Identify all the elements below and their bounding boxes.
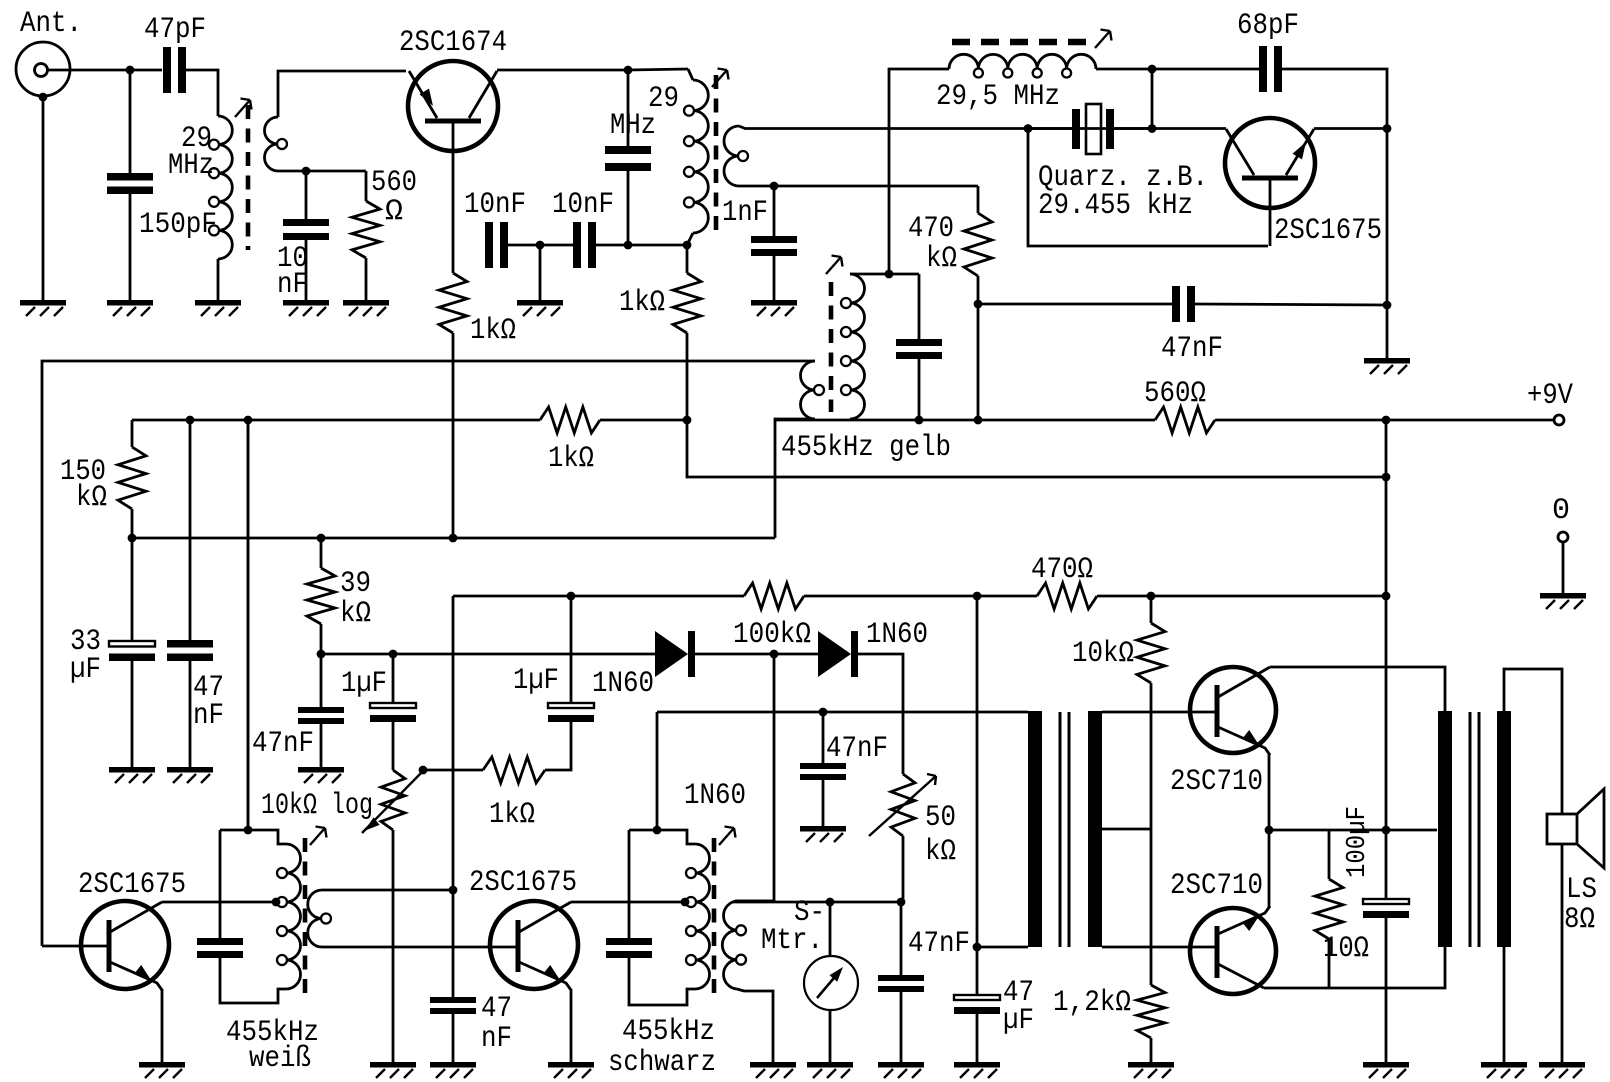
capacitor 47nF (meter) <box>878 975 924 992</box>
label 1kΩ (node B) <box>619 286 665 320</box>
junction 712/47nF <box>819 708 828 717</box>
label nF (x453) <box>481 1022 512 1056</box>
ground 47nF AF <box>800 826 846 842</box>
capacitor 47µF (electrolytic) <box>954 995 1000 1014</box>
wire 150k bottom <box>131 509 134 538</box>
label 1kΩ (rail) <box>548 442 594 476</box>
wire Q3 emitter <box>161 989 164 1062</box>
junction collector/tank <box>624 66 633 75</box>
label 150pF <box>139 208 217 242</box>
transformer T1 tuning arrow <box>235 99 252 118</box>
wire 47pF to T1 <box>186 70 218 116</box>
capacitor 33µF (electrolytic) <box>109 641 155 661</box>
label schwarz <box>608 1046 716 1080</box>
label Q6 2SC710 <box>1170 869 1263 903</box>
wire 1k AF to 1uF2 <box>545 721 571 770</box>
capacitor 47nF (AF) <box>800 763 846 780</box>
wire Q5 collector <box>1270 667 1445 712</box>
svg-text:1kΩ: 1kΩ <box>619 286 665 320</box>
ground 1nF <box>751 300 797 316</box>
ground 47nF rail <box>167 767 213 783</box>
junction 470k/47nF <box>974 300 983 309</box>
svg-text:1kΩ: 1kΩ <box>548 442 594 476</box>
label D1 1N60 <box>592 667 654 701</box>
wire 1.2k gnd <box>1150 1038 1153 1062</box>
wire driver prim bottom <box>978 946 1028 949</box>
wire Q2 base lead <box>1269 178 1272 246</box>
resistor 1kΩ (node B) <box>673 273 701 333</box>
label nF (railnF) <box>193 699 224 733</box>
wire antenna to node A <box>48 69 162 72</box>
speaker LS <box>1547 789 1604 868</box>
junction 10nF mid <box>536 241 545 250</box>
wire 453 vertical <box>452 596 455 890</box>
ground osc right <box>1364 358 1410 374</box>
resistor 10kΩ <box>1137 623 1165 683</box>
wire Q4 emitter <box>570 989 573 1062</box>
wire T7 sec bottom <box>1503 947 1506 1062</box>
crystal Q 29.455kHz <box>1072 104 1114 154</box>
diode D2 1N60 <box>818 631 858 677</box>
wire 1k to AGC line <box>452 333 455 538</box>
ground T7 sec <box>1481 1062 1527 1078</box>
svg-text:1nF: 1nF <box>722 196 768 230</box>
label 560Ω (rail) <box>1144 377 1206 411</box>
osc coil tuning arrow <box>1095 30 1112 49</box>
svg-text:47: 47 <box>481 992 512 1026</box>
wire 596 line c <box>804 595 1037 598</box>
wire weiss cap bottom <box>220 958 286 1003</box>
junction meter node <box>897 898 906 907</box>
junction 538/1k <box>449 534 458 543</box>
wire emitters line <box>1269 829 1437 832</box>
wire 39k top <box>320 538 323 568</box>
wire Q6 collector <box>1264 947 1445 988</box>
wire Q1 collector <box>497 69 688 70</box>
ground pot <box>370 1062 416 1078</box>
svg-text:100kΩ: 100kΩ <box>733 618 811 652</box>
wire schwarz sec bottom <box>737 989 773 1062</box>
wire osc tank cap bottom <box>918 359 921 420</box>
capacitor 150pF <box>107 173 153 194</box>
label 10kΩ log <box>261 789 373 823</box>
ground 33uF <box>109 767 155 783</box>
svg-text:1µF: 1µF <box>513 664 559 698</box>
svg-text:LS: LS <box>1566 873 1597 907</box>
wire 1uF#1 top <box>392 654 395 702</box>
label Q4 2SC1675 <box>469 866 577 900</box>
junction rail gelb cap <box>915 416 924 425</box>
wire osc tank cap drop <box>918 274 921 339</box>
label 50 <box>925 801 956 835</box>
svg-text:1kΩ: 1kΩ <box>489 798 535 832</box>
svg-text:100µF: 100µF <box>1343 806 1373 878</box>
junction 977/947 <box>973 943 982 952</box>
junction base line / 1k2 <box>683 241 692 250</box>
capacitor 47nF (osc, series) <box>1172 286 1195 322</box>
wire 47nF rail top <box>189 420 192 640</box>
label 150 <box>60 455 106 489</box>
wire 1nF top lead <box>773 186 776 236</box>
junction detector mid <box>770 650 779 659</box>
wire 560R to gnd <box>365 258 368 300</box>
label kΩ (50k) <box>925 835 956 869</box>
capacitor 100µF (electrolytic) <box>1363 899 1409 918</box>
label 1kΩ (Q1) <box>470 314 516 348</box>
label 470Ω <box>1031 553 1093 587</box>
capacitor 10nF b (series) <box>573 222 596 268</box>
transformer T4 core <box>303 838 308 995</box>
capacitor weiss tank <box>197 938 243 958</box>
wire 470k top <box>977 186 980 213</box>
resistor 560Ω (emitter) <box>352 201 380 258</box>
wire 47nF rail bottom <box>189 661 192 767</box>
inductor 29,5MHz osc coil <box>949 54 1096 77</box>
wire node A down <box>129 70 132 173</box>
wire node B down <box>687 420 1386 477</box>
wire 10k top <box>1150 596 1153 623</box>
label 68pF <box>1237 9 1299 43</box>
wire 150k top <box>131 420 134 447</box>
wire T1 sec top <box>278 71 406 117</box>
svg-text:Ant.: Ant. <box>20 7 82 41</box>
ground Q3 emitter <box>139 1062 185 1078</box>
wire tank cap leads <box>627 70 630 146</box>
wire 596 line d <box>1097 595 1386 598</box>
svg-text:2SC710: 2SC710 <box>1170 869 1263 903</box>
label 560 <box>371 166 417 200</box>
wire xtal node down <box>1028 129 1268 247</box>
svg-text:kΩ: kΩ <box>76 481 107 515</box>
wire 0 to gnd <box>1562 542 1565 593</box>
transformer T2 primary coil <box>684 80 708 233</box>
label Q2 2SC1675 <box>1274 214 1382 248</box>
capacitor 47nF (rail bypass) <box>167 640 213 661</box>
ground T1 primary <box>195 300 241 316</box>
wire 10nF mid gnd <box>539 245 542 300</box>
svg-text:1kΩ: 1kΩ <box>470 314 516 348</box>
ground 47uF <box>954 1062 1000 1078</box>
svg-text:kΩ: kΩ <box>340 597 371 631</box>
label 10kΩ <box>1072 637 1134 671</box>
wire 47nF line left <box>978 303 1172 306</box>
ground 10nF mid <box>517 300 563 316</box>
svg-text:470: 470 <box>908 212 954 246</box>
label 1nF <box>722 196 768 230</box>
trimmer 50kΩ <box>869 774 936 836</box>
label Ant. <box>20 7 82 41</box>
wire diode line mid <box>695 653 818 656</box>
transformer T5 core <box>712 838 717 995</box>
svg-text:µF: µF <box>1003 1004 1034 1038</box>
transistor Q5 2SC710 <box>1190 667 1276 755</box>
wire AF 712 line <box>657 711 1028 714</box>
ground 150pF <box>107 300 153 316</box>
wire to 560R <box>365 171 368 201</box>
wire 33u top <box>131 538 134 640</box>
wire 47nF 823 <box>822 712 825 763</box>
svg-text:29,5 MHz: 29,5 MHz <box>936 80 1060 114</box>
resistor 10Ω <box>1315 879 1343 939</box>
wire driver sec top <box>1102 711 1217 714</box>
ground 1.2k <box>1128 1062 1174 1078</box>
junction rail/150k... 190 <box>186 416 195 425</box>
junction rail node B <box>683 416 692 425</box>
wire 657 drop <box>656 712 659 830</box>
wire schwarz cap branch <box>628 830 631 938</box>
transformer T3 core <box>829 282 834 412</box>
label 47 (x453) <box>481 992 512 1026</box>
svg-text:50: 50 <box>925 801 956 835</box>
capacitor 47nF (Q4 base) <box>430 997 476 1014</box>
potentiometer 10kΩ log <box>362 770 423 833</box>
junction 1nF node <box>770 182 779 191</box>
wire 1uF2 top <box>570 596 573 702</box>
wire 100uF top <box>1385 830 1388 898</box>
svg-text:560Ω: 560Ω <box>1144 377 1206 411</box>
transformer T1 secondary coil <box>265 117 288 171</box>
transformer T2 tuning arrow <box>712 69 729 88</box>
svg-text:47nF: 47nF <box>252 727 314 761</box>
wire 1k2 top lead <box>686 245 689 273</box>
wire 150pF to gnd <box>129 194 132 300</box>
svg-text:Ω: Ω <box>385 195 403 229</box>
junction rail vert node <box>1382 416 1391 425</box>
label kΩ (39k) <box>340 597 371 631</box>
wire wiper line <box>423 769 483 772</box>
junction 39k/654 <box>317 650 326 659</box>
junction gelb top node <box>885 270 894 279</box>
wire T1 sec bottom <box>278 170 366 173</box>
resistor 150kΩ <box>118 447 146 509</box>
svg-text:µF: µF <box>70 653 101 687</box>
wire 39k cap gnd <box>320 724 323 767</box>
capacitor 1µF (AF out) <box>548 703 594 722</box>
ground 47nF Q4 <box>430 1062 476 1078</box>
capacitor 47nF (AGC) <box>298 707 344 724</box>
wire 1k2 to rail <box>686 333 689 420</box>
label 1µF (pot) <box>341 667 387 701</box>
svg-text:nF: nF <box>481 1022 512 1056</box>
wire T2 sec bottom <box>739 185 978 188</box>
wire 47nF 823 gnd <box>822 780 825 826</box>
svg-text:Mtr.: Mtr. <box>761 924 823 958</box>
label 29,5 MHz <box>936 80 1060 114</box>
label MHz (T2) <box>610 109 656 143</box>
transistor Q4 2SC1675 <box>490 901 578 990</box>
ground meter <box>807 1062 853 1078</box>
wire meter 47nF <box>900 902 903 975</box>
ground antenna <box>20 300 66 316</box>
resistor 39kΩ <box>307 568 335 624</box>
transistor Q1 2SC1674 <box>408 61 498 151</box>
svg-text:10kΩ log: 10kΩ log <box>261 789 373 823</box>
wire speaker gnd <box>1561 844 1564 1062</box>
capacitor 68pF (series) <box>1259 46 1282 92</box>
wire to 10nF <box>305 171 308 219</box>
ground meter 47nF <box>878 1062 924 1078</box>
svg-text:47nF: 47nF <box>826 732 888 766</box>
transformer T5 tuning arrow <box>719 827 736 846</box>
wire weiss sec top <box>322 889 453 892</box>
junction rail-477 <box>1382 473 1391 482</box>
svg-text:MHz: MHz <box>610 109 656 143</box>
transformer T1 core <box>246 105 251 250</box>
junction osc top node <box>1148 65 1157 74</box>
transformer T2 secondary coil <box>724 126 748 186</box>
wire driver sec ct <box>1102 828 1151 831</box>
wire Q3 collector out <box>162 901 277 904</box>
ground 10nF emitter <box>283 300 329 316</box>
ground 47nF AGC <box>298 767 344 783</box>
transformer T5 schwarz primary <box>686 844 710 989</box>
svg-text:0: 0 <box>1552 494 1570 528</box>
transformer T7 core <box>1470 712 1479 947</box>
svg-text:47nF: 47nF <box>1161 332 1223 366</box>
wire gelb prim top to AGC <box>42 361 815 946</box>
svg-text:455kHz gelb: 455kHz gelb <box>781 431 951 465</box>
label 10 (nF) <box>277 242 308 276</box>
label µF (33µ) <box>70 653 101 687</box>
ground speaker <box>1539 1062 1585 1078</box>
junction node A <box>126 66 135 75</box>
wire Q6 emitter up <box>1268 830 1271 908</box>
transformer T3 primary coil <box>801 361 825 419</box>
junction 890/x453 <box>449 886 458 895</box>
wire x453 cap gnd <box>452 1014 455 1062</box>
wire T1 primary to gnd <box>217 259 220 300</box>
wire 100uF gnd <box>1385 918 1388 1062</box>
wire Q1 base lead <box>452 121 455 245</box>
resistor 1kΩ (Q1 base) <box>439 273 467 333</box>
label 29 (T2) <box>648 82 679 116</box>
wire D2 out <box>858 654 903 774</box>
wire x977 vertical <box>976 596 979 994</box>
resistor 560Ω (rail) <box>1155 407 1215 433</box>
wire schwarz sec top <box>737 900 775 903</box>
ground 0 terminal <box>1540 593 1586 609</box>
wire rail left <box>132 419 540 422</box>
transformer T1 primary coil 29MHz <box>209 116 232 259</box>
svg-text:470Ω: 470Ω <box>1031 553 1093 587</box>
resistor 1kΩ (AF) <box>483 757 545 783</box>
label 47nF (osc) <box>1161 332 1223 366</box>
svg-text:1N60: 1N60 <box>684 779 746 813</box>
label Mtr. <box>761 924 823 958</box>
label LS <box>1566 873 1597 907</box>
junction wiper node <box>419 766 428 775</box>
wire 10R bottom <box>1328 939 1331 988</box>
label 47nF (meter) <box>908 927 970 961</box>
svg-text:schwarz: schwarz <box>608 1046 716 1080</box>
svg-text:2SC1675: 2SC1675 <box>78 868 186 902</box>
transformer T6 driver primary bar <box>1028 711 1042 947</box>
svg-text:2SC710: 2SC710 <box>1170 765 1263 799</box>
wire xtal left lead <box>1028 127 1072 130</box>
svg-text:10nF: 10nF <box>464 188 526 222</box>
wire 39k bottom <box>320 624 323 654</box>
wire xtal right lead <box>1114 127 1152 130</box>
label Ω (560) <box>385 195 403 229</box>
wire weiss cap branch <box>219 830 222 938</box>
wire Q4 collector out <box>571 901 686 904</box>
junction rail 248 <box>244 416 253 425</box>
junction 596/10k <box>1147 592 1156 601</box>
svg-text:47pF: 47pF <box>144 13 206 47</box>
transformer T7 output primary bar <box>1438 711 1452 947</box>
wire 10nF b to node <box>596 244 687 247</box>
label Q5 2SC710 <box>1170 765 1263 799</box>
osc coil core <box>952 39 1090 46</box>
label 455kHz (weiss) <box>226 1016 319 1050</box>
capacitor 10nF (emitter bypass) <box>283 219 329 240</box>
wire osc coil left drop <box>889 69 949 274</box>
wire 39k cap <box>320 654 323 707</box>
label kΩ (470k) <box>926 242 957 276</box>
label 1N60 float <box>684 779 746 813</box>
label 470 <box>908 212 954 246</box>
label Quarz. z.B. <box>1038 161 1208 195</box>
label 47pF <box>144 13 206 47</box>
resistor 470Ω <box>1037 583 1097 609</box>
wire tank cap down <box>627 171 630 245</box>
label +9V <box>1527 379 1573 413</box>
svg-text:nF: nF <box>277 268 308 302</box>
wire 47uF gnd <box>976 1014 979 1062</box>
wire 10nF to gnd <box>305 240 308 300</box>
junction xtal line mid <box>1148 124 1157 133</box>
wire rail right <box>775 419 1155 422</box>
capacitor schwarz tank <box>606 938 652 958</box>
terminal +9V <box>1554 415 1564 425</box>
wire 596 line a <box>453 595 571 598</box>
wire 1uF#1 to pot <box>392 722 395 770</box>
wire T2 sec top to xtal line <box>739 126 1226 129</box>
wire gelb sec top line <box>850 273 919 276</box>
svg-text:10Ω: 10Ω <box>1323 932 1369 966</box>
svg-text:2SC1674: 2SC1674 <box>399 26 507 60</box>
transformer T3 tuning arrow <box>826 256 843 275</box>
svg-text:2SC1675: 2SC1675 <box>469 866 577 900</box>
label Q3 2SC1675 <box>78 868 186 902</box>
label weiss <box>249 1042 311 1076</box>
transformer T5 secondary <box>722 901 746 989</box>
junction 47nF node right <box>1383 301 1392 310</box>
antenna connector Ant <box>16 42 70 96</box>
label 47 (uF) <box>1003 976 1034 1010</box>
ground schwarz sec <box>750 1062 796 1078</box>
label 1kΩ (AF) <box>489 798 535 832</box>
label 0 <box>1552 494 1570 528</box>
junction 9V/596 <box>1382 592 1391 601</box>
junction 150k/33u <box>128 534 137 543</box>
wire 33u bottom <box>131 661 134 767</box>
wire weiss top rail <box>220 830 286 844</box>
label 47nF (AGC) <box>252 727 314 761</box>
transformer T4 weiss primary <box>277 844 301 989</box>
wire 68pF to corner <box>1282 69 1387 358</box>
svg-text:MHz: MHz <box>168 149 214 183</box>
junction weiss tap <box>272 898 281 907</box>
label 10nF a <box>464 188 526 222</box>
capacitor 1nF <box>751 236 797 256</box>
transformer T6 secondary bar <box>1088 711 1102 947</box>
label 10Ω <box>1323 932 1369 966</box>
terminal 0 <box>1558 532 1568 542</box>
svg-text:1N60: 1N60 <box>866 618 928 652</box>
wire Q2 emitter wire <box>1314 127 1387 130</box>
junction 596/x977 <box>973 592 982 601</box>
